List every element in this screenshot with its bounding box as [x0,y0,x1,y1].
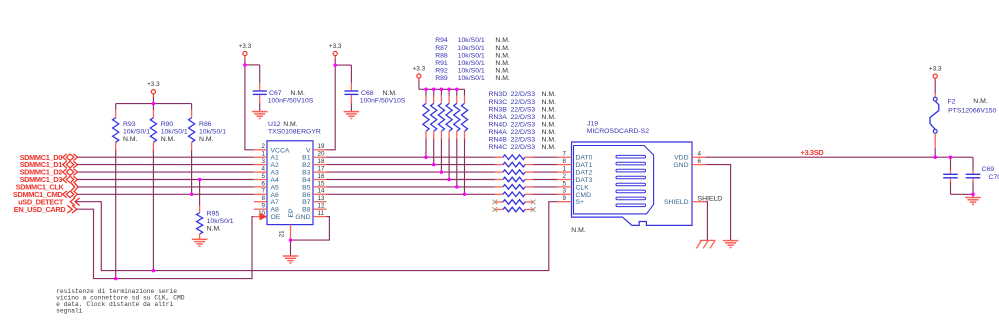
connector J19 body [572,142,693,225]
svg-text:RN3D: RN3D [489,91,508,98]
svg-text:3: 3 [262,158,266,165]
svg-text:R95: R95 [207,211,220,218]
svg-text:22/D/S3: 22/D/S3 [511,91,536,98]
U12 pin 11 GND [295,210,326,221]
svg-text:9: 9 [563,195,567,202]
ground (C69 C70) [965,194,981,204]
svg-text:22/D/S3: 22/D/S3 [511,121,536,128]
svg-text:N.M.: N.M. [542,91,557,98]
svg-text:R93: R93 [123,121,136,128]
svg-text:MICROSDCARD-S2: MICROSDCARD-S2 [587,128,650,135]
J19 pin 6 GND [673,158,706,169]
svg-text:N.M.: N.M. [383,90,398,97]
U12 pin 10 OE [254,210,281,221]
port SDMMC1_D2 [20,168,78,177]
svg-text:RN4C: RN4C [489,144,508,151]
label RN3B [489,106,557,113]
label R89 [435,75,510,82]
note text [56,288,185,315]
U12 EP label [288,208,295,218]
svg-text:OE: OE [271,214,281,221]
label RN3A [489,114,557,121]
svg-text:B5: B5 [302,184,311,191]
svg-text:SHIELD: SHIELD [698,195,723,202]
wire RN to J19 pin [533,193,557,195]
svg-text:10k/S0/1: 10k/S0/1 [458,45,485,52]
svg-text:SHIELD: SHIELD [664,199,689,206]
label R88 [435,52,510,59]
svg-text:DAT2: DAT2 [576,170,593,177]
svg-text:R90: R90 [161,121,174,128]
svg-text:10k/S0/1: 10k/S0/1 [161,128,188,135]
label RN3D [489,91,557,98]
U12 pin 17 B3 [302,166,326,177]
U12 pin 3 A2 [254,158,279,169]
svg-text:2: 2 [262,143,266,150]
wire VCCA rail [245,65,254,150]
svg-text:5: 5 [262,173,266,180]
capacitor C69 [943,157,958,194]
svg-text:100nF/50V10S: 100nF/50V10S [360,98,406,105]
U12 pin 15 B5 [302,180,326,191]
svg-text:PTS12066V150: PTS12066V150 [948,108,997,115]
port SDMMC1_D3 [20,175,78,184]
resistor RN4A [495,192,533,197]
svg-text:EP: EP [288,208,295,218]
J19 pin 1 DAT2 [557,166,593,177]
svg-text:10k/S0/1: 10k/S0/1 [123,128,150,135]
resistor R94 [423,89,429,157]
wire RN to J19 pin [533,186,557,188]
svg-text:N.M.: N.M. [495,52,510,59]
svg-text:TXS0108ERGYR: TXS0108ERGYR [268,128,321,135]
J19 pin 8 DAT1 [557,158,593,169]
U12 pin 5 A4 [254,173,279,184]
svg-text:+3.3: +3.3 [929,66,942,73]
svg-text:+3.3: +3.3 [329,43,342,50]
capacitor C68 [335,65,358,112]
wire cap bottoms [951,193,974,195]
label R87 [435,45,510,52]
U12 pin 18 B2 [302,158,326,169]
svg-text:10k/S0/1: 10k/S0/1 [458,52,485,59]
svg-text:N.M.: N.M. [207,226,222,233]
wire +3.3SD [706,156,973,158]
svg-text:B3: B3 [302,170,311,177]
resistor RN4C (unconnected) [492,207,535,212]
svg-text:VDD: VDD [674,155,688,162]
power +3.3 (termination bank) [413,66,465,90]
J19 card contacts [616,155,646,206]
svg-text:N.M.: N.M. [542,137,557,144]
ground (J19 GND) [723,241,739,248]
svg-text:R92: R92 [435,67,448,74]
svg-text:21: 21 [279,230,286,237]
svg-text:SDMMC1_CLK: SDMMC1_CLK [16,183,65,192]
label RN4C [489,144,557,151]
J19 pin 7 DAT0 [557,151,593,162]
resistor RN3A [495,177,533,182]
svg-text:GND: GND [295,214,310,221]
svg-text:22/D/S3: 22/D/S3 [511,144,536,151]
resistor R92 [454,89,460,187]
U12 pin 7 A6 [254,188,279,199]
svg-text:6: 6 [262,180,266,187]
resistor R95 [197,180,203,240]
svg-text:R87: R87 [435,45,448,52]
svg-text:N.M.: N.M. [495,37,510,44]
wire B5 to RN [327,186,496,188]
svg-text:22/D/S3: 22/D/S3 [511,106,536,113]
U12 pin 8 A7 [254,195,279,206]
svg-text:8: 8 [563,158,567,165]
svg-text:19: 19 [318,143,325,150]
svg-text:6: 6 [698,158,702,165]
label J19 [587,121,650,136]
wire B6 to RN [327,193,496,195]
svg-text:A3: A3 [271,170,280,177]
svg-text:1: 1 [563,166,567,173]
label RN4D [489,121,557,128]
svg-text:EN_USD_CARD: EN_USD_CARD [14,205,67,214]
wire J19 GND [706,165,731,241]
label RN4B [489,137,557,144]
J19 pin shield SHIELD [664,199,706,206]
U12 pin 4 A3 [254,166,279,177]
svg-text:22/D/S3: 22/D/S3 [511,137,536,144]
U12 pin 20 B1 [302,151,326,162]
svg-text:J19: J19 [587,121,598,128]
svg-text:GND: GND [673,162,688,169]
wire VCCB rail [327,65,336,150]
U12 pin 16 B4 [302,173,326,184]
svg-text:10k/S0/1: 10k/S0/1 [458,37,485,44]
resistor R93 [113,104,119,279]
svg-text:N.M.: N.M. [495,67,510,74]
svg-text:RN4D: RN4D [489,121,508,128]
svg-text:10k/S0/1: 10k/S0/1 [458,75,485,82]
svg-text:B1: B1 [302,155,311,162]
label J19 N.M. [571,227,586,234]
svg-text:B8: B8 [302,207,311,214]
svg-text:10k/S0/1: 10k/S0/1 [458,67,485,74]
svg-text:DAT3: DAT3 [576,177,593,184]
wire uSD_DETECT run [76,202,558,271]
J19 pin 5 CLK [557,180,589,191]
wire SDMMC1_CLK [78,186,254,188]
port SDMMC1_CLK [16,183,78,192]
label C69 [982,166,999,181]
label R95 [207,211,234,233]
svg-text:2: 2 [563,173,567,180]
svg-text:20: 20 [318,151,325,158]
svg-text:C67: C67 [269,90,282,97]
resistor RN4D [495,185,533,190]
svg-text:17: 17 [318,166,325,173]
svg-text:A4: A4 [271,177,280,184]
power +3.3 (VCCB) [329,43,342,65]
J19 pin 4 VDD [674,151,706,162]
svg-text:VCCA: VCCA [271,147,290,154]
J19 pin 9 S+ [557,195,584,206]
svg-text:10k/S0/1: 10k/S0/1 [207,218,234,225]
wire B4 to RN [327,179,496,181]
wire RN to J19 pin [533,179,557,181]
svg-text:N.M.: N.M. [571,227,586,234]
J19 pin 3 CMD [557,188,591,199]
resistor R86 [189,104,195,195]
svg-text:CMD: CMD [576,192,592,199]
port EN_USD_CARD [14,205,77,214]
resistor R87 [431,89,437,164]
wire RN to J19 pin [533,156,557,158]
svg-text:RN4A: RN4A [489,129,508,136]
U12 pin 19 V [306,143,327,154]
power +3.3 (VCCA) [239,43,252,65]
svg-text:N.M.: N.M. [199,136,214,143]
label R92 [435,67,510,74]
wire SDMMC1_D1 [78,164,254,166]
svg-text:N.M.: N.M. [542,114,557,121]
resistor RN3D [495,155,533,160]
svg-text:7: 7 [563,151,567,158]
svg-text:N.M.: N.M. [291,90,306,97]
port SDMMC1_D0 [20,153,78,162]
op-amp U12 body [267,141,313,225]
svg-text:N.M.: N.M. [542,106,557,113]
U12 pin 6 A5 [254,180,279,191]
port SDMMC1_D1 [20,160,78,169]
svg-text:A7: A7 [271,199,280,206]
svg-text:7: 7 [262,188,266,195]
svg-text:B6: B6 [302,192,311,199]
svg-text:N.M.: N.M. [123,136,138,143]
wire EN_USD_CARD run [77,209,254,278]
label F2 [948,98,997,115]
label C68 [360,90,406,105]
U12 pin 21 EP pad [279,225,291,241]
svg-text:22/D/S3: 22/D/S3 [511,114,536,121]
svg-text:R94: R94 [435,37,448,44]
svg-text:A2: A2 [271,162,280,169]
svg-text:N.M.: N.M. [283,121,298,128]
svg-text:A1: A1 [271,155,280,162]
svg-text:RN3C: RN3C [489,99,508,106]
svg-text:DAT1: DAT1 [576,162,593,169]
resistor RN3B [495,170,533,175]
label R90 [161,121,188,143]
U12 OE input arrow [260,213,268,221]
wire J19 SHIELD [706,202,707,241]
svg-text:15: 15 [318,180,325,187]
svg-text:N.M.: N.M. [542,144,557,151]
svg-text:N.M.: N.M. [495,45,510,52]
svg-text:4: 4 [698,151,702,158]
power +3.3 (left pullups) [147,81,160,103]
svg-text:segnali: segnali [56,308,83,315]
svg-text:N.M.: N.M. [973,98,988,105]
resistor R90 [150,104,156,271]
svg-text:B7: B7 [302,199,311,206]
svg-text:18: 18 [318,158,325,165]
wire RN to J19 pin [533,164,557,166]
wire SDMMC1_D2 [78,171,254,173]
svg-text:A6: A6 [271,192,280,199]
label C67 [268,90,314,105]
ground (R95) [192,239,208,246]
svg-text:S+: S+ [576,199,585,206]
label R94 [435,37,510,44]
svg-text:N.M.: N.M. [542,99,557,106]
svg-text:N.M.: N.M. [542,121,557,128]
svg-text:N.M.: N.M. [495,60,510,67]
wire B1 to RN [327,156,496,158]
svg-text:N.M.: N.M. [495,75,510,82]
svg-text:R89: R89 [435,75,448,82]
svg-text:A5: A5 [271,184,280,191]
svg-text:F2: F2 [948,98,956,105]
svg-text:13: 13 [318,195,325,202]
svg-text:C69: C69 [982,166,995,173]
svg-text:V: V [306,147,311,154]
wire SDMMC1_D0 [78,156,254,158]
U12 pin 13 B7 [302,195,326,206]
svg-text:22/D/S3: 22/D/S3 [511,99,536,106]
svg-text:DAT0: DAT0 [576,155,593,162]
label R86 [199,121,226,143]
chassis ground (SHIELD) [696,240,715,248]
label RN4A [489,129,557,136]
svg-text:1: 1 [262,151,266,158]
capacitor C70 [966,157,981,194]
resistor RN3C [495,162,533,167]
U12 pin 2 VCCA [254,143,290,154]
svg-text:3: 3 [563,188,567,195]
svg-text:N.M.: N.M. [161,136,176,143]
svg-text:16: 16 [318,173,325,180]
node +3.3SD [801,148,825,157]
svg-text:9: 9 [262,203,266,210]
svg-text:+3.3: +3.3 [413,66,426,73]
wire SDMMC1_D3 [78,179,254,181]
label R91 [435,60,510,67]
resistor R91 [446,89,452,179]
svg-text:12: 12 [318,203,325,210]
svg-text:10k/S0/1: 10k/S0/1 [458,60,485,67]
svg-text:R88: R88 [435,52,448,59]
svg-text:4: 4 [262,166,266,173]
wire SDMMC1_CMD [78,193,254,195]
wire B3 to RN [327,171,496,173]
ground (C68) [344,112,360,119]
wire RN to J19 pin [533,171,557,173]
svg-text:N.M.: N.M. [542,129,557,136]
label U12 [268,121,321,135]
port uSD_DETECT [18,197,80,206]
svg-text:CLK: CLK [576,184,590,191]
svg-text:+3.3: +3.3 [239,43,252,50]
ground (C67) [252,112,268,119]
svg-text:14: 14 [318,188,325,195]
port SDMMC1_CMD [13,190,78,199]
svg-text:11: 11 [318,210,325,217]
svg-text:22/D/S3: 22/D/S3 [511,129,536,136]
U12 pin 1 A1 [254,151,279,162]
svg-text:10k/S0/1: 10k/S0/1 [199,128,226,135]
wire pullup bus left [116,103,192,105]
svg-text:+3.3SD: +3.3SD [801,148,825,157]
resistor RN4B (unconnected) [492,200,535,205]
resistor R89 [461,89,467,194]
svg-text:100nF/50V10S: 100nF/50V10S [268,98,314,105]
svg-text:B4: B4 [302,177,311,184]
U12 pin 12 B8 [302,203,326,214]
svg-text:+3.3: +3.3 [147,81,160,88]
svg-text:RN3B: RN3B [489,106,508,113]
U12 pin 14 B6 [302,188,326,199]
J19 microSD card graphic [574,146,654,214]
svg-text:5: 5 [563,180,567,187]
J19 pin 2 DAT3 [557,173,593,184]
svg-text:A8: A8 [271,207,280,214]
svg-text:RN4B: RN4B [489,137,508,144]
label R93 [123,121,150,143]
wire B2 to RN [327,164,496,166]
node SHIELD [698,195,723,202]
ground (U12) [283,240,299,263]
fuse F2 [930,97,939,157]
power +3.3 (SD) [929,66,942,98]
svg-text:8: 8 [262,195,266,202]
svg-text:U12: U12 [268,121,281,128]
capacitor C67 [245,65,267,112]
svg-text:R91: R91 [435,60,448,67]
svg-text:B2: B2 [302,162,311,169]
label RN3C [489,99,557,106]
svg-text:R86: R86 [199,121,212,128]
svg-text:RN3A: RN3A [489,114,508,121]
svg-text:C68: C68 [361,90,374,97]
wire U12 GND to EP [291,217,330,241]
svg-text:C70: C70 [989,174,999,181]
resistor R88 [438,89,444,172]
U12 pin 9 A8 [254,203,279,214]
